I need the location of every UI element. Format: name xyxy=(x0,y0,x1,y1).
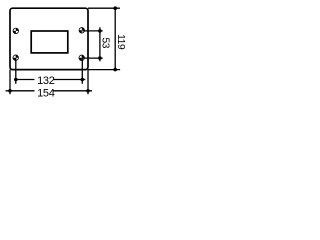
mounting hole H2 (bottom-left) xyxy=(13,55,19,61)
dimension line 154 left segment xyxy=(6,90,35,92)
dimension line 132 left segment xyxy=(15,79,35,81)
dimension line 154 right segment xyxy=(54,90,93,92)
svg-text:53: 53 xyxy=(99,38,110,49)
extension line bottom (plate bottom edge to 119 dim) xyxy=(88,69,120,71)
arrow 132 left xyxy=(14,78,18,82)
svg-text:132: 132 xyxy=(37,75,55,87)
arrow 119 top xyxy=(113,6,117,10)
extension line plate right edge down to 154 dim xyxy=(87,70,89,95)
leader line from hole H4 (53 bottom) xyxy=(82,57,102,59)
mounting hole H1 (top-left) xyxy=(13,28,18,34)
arrow 132 right xyxy=(81,78,85,82)
mounting hole H3 (top-right) xyxy=(79,28,85,34)
cutout rectangle xyxy=(31,31,68,53)
mounting hole H4 (bottom-right) xyxy=(79,55,85,61)
arrow 53 bottom xyxy=(98,56,102,60)
svg-text:119: 119 xyxy=(115,34,126,50)
arrow 119 bottom xyxy=(113,68,117,72)
arrow 154 right xyxy=(86,89,90,93)
extension line left hole column (H2 down to 132 dim) xyxy=(15,58,17,84)
extension line plate left edge down to 154 dim xyxy=(9,70,11,95)
arrow 53 top xyxy=(98,29,102,33)
plate outline xyxy=(10,8,88,69)
svg-text:154: 154 xyxy=(37,87,55,99)
dimension line 53 (vertical) xyxy=(99,27,101,61)
extension line right hole column (H4 down to 132 dim) xyxy=(81,58,83,84)
leader line from hole H3 (53 top) xyxy=(82,30,102,32)
extension line top (plate top edge to 119 dim) xyxy=(88,7,120,9)
dimension line 119 (vertical) xyxy=(114,8,116,69)
arrow 154 left xyxy=(8,89,12,93)
background xyxy=(0,0,138,102)
dimension line 132 right segment xyxy=(54,79,86,81)
